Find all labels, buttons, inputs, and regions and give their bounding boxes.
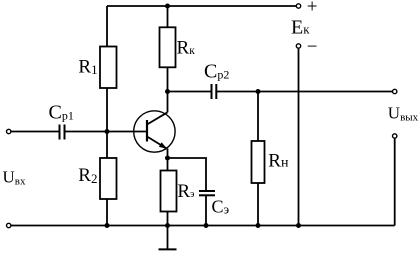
wire collector lead bbox=[167, 92, 169, 113]
terminal output top bbox=[393, 89, 397, 93]
terminal input top bbox=[7, 129, 11, 133]
node Re / ground rail bbox=[165, 223, 170, 228]
svg-text:R2: R2 bbox=[78, 165, 97, 186]
ground bbox=[159, 226, 177, 250]
wire R2 bottom lead bbox=[106, 199, 108, 226]
wire R1 top lead bbox=[106, 6, 108, 47]
wire output bottom to rail bbox=[394, 139, 396, 226]
wire base bbox=[107, 131, 147, 133]
wire Rk top lead bbox=[167, 6, 169, 27]
wire collector node to Cp2 bbox=[168, 91, 212, 93]
wire input to Cp1 bbox=[11, 131, 59, 133]
wire Ek minus to ground rail bbox=[298, 49, 300, 226]
svg-text:Rн: Rн bbox=[268, 150, 289, 171]
resistor Re bbox=[161, 171, 195, 212]
svg-text:Uвх: Uвх bbox=[3, 167, 26, 187]
node Rn junction bbox=[256, 89, 261, 94]
resistor Rk bbox=[160, 27, 196, 67]
wire Cp2 to output terminal bbox=[216, 91, 392, 93]
terminal output bottom bbox=[393, 134, 397, 138]
node Ce / ground rail bbox=[204, 223, 209, 228]
wire emitter to Ce bbox=[168, 158, 207, 191]
wire ground rail bbox=[11, 225, 394, 227]
capacitor Cp2 bbox=[204, 61, 229, 100]
capacitor Ce bbox=[199, 191, 230, 216]
wire top supply rail bbox=[107, 5, 296, 7]
svg-text:R1: R1 bbox=[78, 57, 97, 78]
svg-text:Cp1: Cp1 bbox=[49, 102, 74, 124]
wire Re bottom lead bbox=[167, 212, 169, 226]
node top rail / Rk junction bbox=[165, 4, 170, 9]
terminal Ek minus bbox=[296, 44, 300, 48]
wire Rk bottom lead bbox=[167, 67, 169, 91]
svg-text:+: + bbox=[307, 0, 318, 18]
node Ek / ground rail bbox=[296, 223, 301, 228]
svg-text:Rк: Rк bbox=[177, 38, 196, 59]
svg-text:Uвых: Uвых bbox=[388, 104, 419, 124]
transistor VT1 bbox=[134, 111, 175, 152]
node emitter bbox=[165, 156, 170, 161]
node Rn / ground rail bbox=[256, 223, 261, 228]
wire emitter lead bbox=[167, 149, 169, 159]
terminal input bottom bbox=[7, 223, 11, 227]
svg-text:Rэ: Rэ bbox=[177, 181, 194, 202]
capacitor Cp1 bbox=[49, 102, 74, 140]
wire Rn top lead bbox=[257, 92, 259, 142]
wire Rn bottom lead bbox=[257, 183, 259, 226]
node R2 / ground rail bbox=[105, 223, 110, 228]
wire Re top lead bbox=[167, 158, 169, 171]
terminal Ek plus bbox=[296, 4, 300, 8]
svg-text:Cэ: Cэ bbox=[212, 196, 230, 216]
node collector bbox=[165, 89, 170, 94]
resistor R1 bbox=[78, 47, 116, 89]
wire R2 top lead bbox=[106, 132, 108, 159]
svg-text:Cp2: Cp2 bbox=[204, 61, 229, 83]
wire Ce bottom lead bbox=[205, 195, 207, 225]
svg-text:Eк: Eк bbox=[291, 16, 310, 38]
svg-text:−: − bbox=[307, 37, 318, 58]
resistor R2 bbox=[78, 158, 116, 199]
node base / divider junction bbox=[105, 129, 110, 134]
wire Cp1 to base node bbox=[65, 131, 108, 133]
resistor Rn bbox=[252, 141, 289, 183]
wire R1 bottom lead bbox=[106, 88, 108, 132]
